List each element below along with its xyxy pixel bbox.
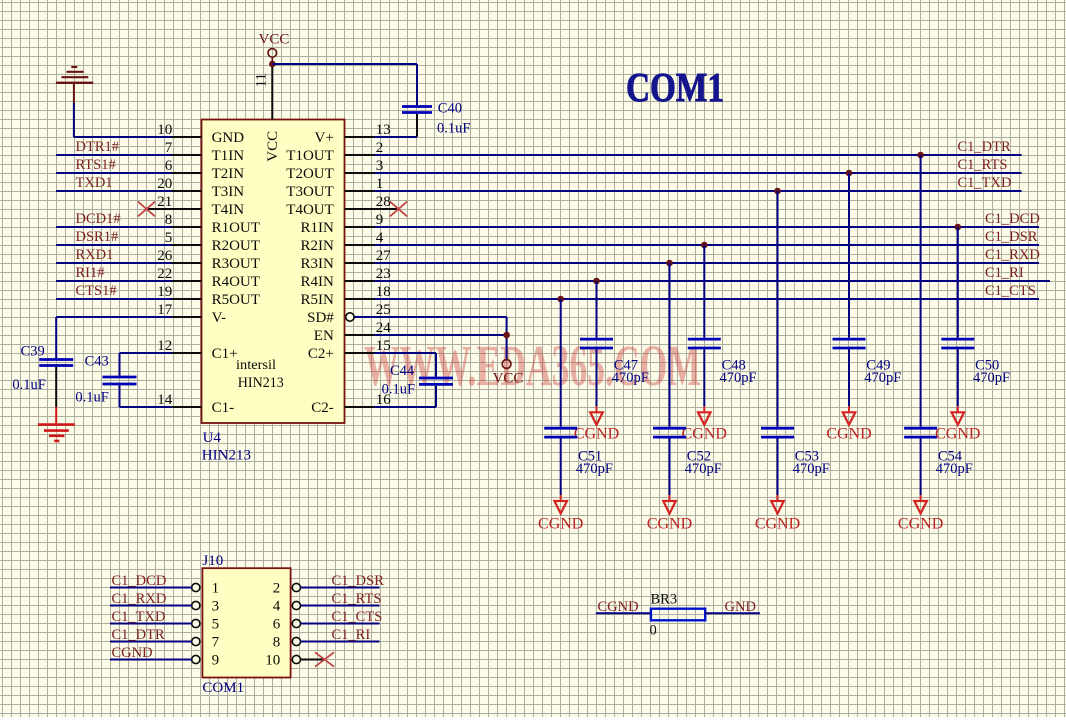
pin 15 U4 right	[345, 338, 391, 354]
svg-text:CGND: CGND	[826, 425, 871, 442]
pin 8 U4 left	[165, 212, 202, 228]
svg-text:DSR1#: DSR1#	[76, 229, 119, 245]
wire C43 to pin14	[119, 385, 121, 407]
svg-text:CGND: CGND	[647, 515, 692, 532]
svg-text:10: 10	[157, 122, 172, 138]
pin 2 J10 right	[273, 580, 301, 596]
power port CGND arrow C49	[843, 406, 856, 425]
svg-text:HIN213: HIN213	[238, 375, 284, 391]
svg-text:2: 2	[273, 580, 281, 596]
svg-text:R2IN: R2IN	[300, 238, 334, 254]
svg-text:C1_DTR: C1_DTR	[958, 139, 1012, 155]
wire pin15 to C44	[375, 352, 437, 354]
svg-text:R1IN: R1IN	[300, 220, 334, 236]
wire net RTS1#	[56, 172, 172, 174]
pin 3 J10 left	[192, 598, 219, 614]
svg-text:7: 7	[212, 634, 220, 650]
svg-text:C1_TXD: C1_TXD	[112, 609, 166, 625]
pin 7 J10 left	[192, 634, 220, 650]
wire net C1_TXD J10	[110, 623, 192, 625]
svg-text:22: 22	[157, 266, 172, 282]
pin 25 U4 right	[346, 302, 391, 321]
svg-text:C1_DCD: C1_DCD	[985, 211, 1040, 227]
junction C48 column	[701, 242, 708, 249]
wire net C1_DSR	[375, 244, 1040, 246]
connector J10 body	[202, 568, 290, 677]
svg-text:1: 1	[212, 580, 220, 596]
svg-text:T4OUT: T4OUT	[286, 202, 334, 218]
pin 6 J10 right	[273, 616, 301, 632]
wire net C1_RTS J10	[301, 605, 380, 607]
capacitor C52	[653, 428, 686, 437]
svg-text:C2-: C2-	[311, 400, 334, 416]
svg-text:C1+: C1+	[212, 346, 238, 362]
power port CGND arrow C47	[590, 406, 603, 425]
svg-text:0.1uF: 0.1uF	[12, 377, 45, 393]
svg-text:0.1uF: 0.1uF	[382, 382, 415, 398]
wire net DCD1#	[56, 226, 172, 228]
svg-text:5: 5	[165, 230, 173, 246]
pin 6 U4 left	[165, 158, 202, 174]
svg-text:470pF: 470pF	[973, 370, 1010, 386]
svg-text:4: 4	[273, 598, 281, 614]
svg-text:R5IN: R5IN	[300, 292, 334, 308]
power port CGND arrow C53	[771, 495, 784, 514]
pin 14 U4 left	[157, 392, 201, 408]
svg-text:8: 8	[273, 634, 281, 650]
wire SD# to VCC	[354, 316, 506, 318]
svg-text:R4OUT: R4OUT	[212, 274, 260, 290]
power port CGND arrow C54	[914, 495, 927, 514]
no-connect X pin10 J10	[315, 652, 334, 666]
pin 5 J10 left	[192, 616, 219, 632]
pin 1 U4 right	[345, 176, 384, 192]
wire C51 column upper	[560, 299, 562, 427]
svg-text:C1_RXD: C1_RXD	[985, 247, 1040, 263]
power port CGND arrow C51	[554, 495, 567, 514]
svg-text:4: 4	[376, 230, 384, 246]
wire net C1_DCD J10	[110, 587, 192, 589]
no-connect X pin21	[138, 202, 155, 217]
svg-text:470pF: 470pF	[685, 461, 722, 477]
svg-text:0: 0	[650, 623, 657, 639]
svg-text:T4IN: T4IN	[212, 202, 245, 218]
svg-text:intersil: intersil	[236, 358, 276, 373]
svg-text:T2IN: T2IN	[212, 166, 245, 182]
wire net C1_RXD	[375, 262, 1040, 264]
svg-text:C1_DCD: C1_DCD	[112, 573, 167, 589]
power port VCC top	[259, 31, 290, 62]
pin 18 U4 right	[345, 284, 391, 300]
pin 22 U4 left	[157, 266, 201, 282]
pin 19 U4 left	[157, 284, 201, 300]
svg-text:C1_CTS: C1_CTS	[332, 609, 383, 625]
junction C52 column	[666, 260, 673, 267]
svg-text:COM1: COM1	[626, 64, 724, 110]
svg-text:14: 14	[157, 392, 173, 408]
wire C50 column upper	[957, 227, 959, 338]
pin 28 U4 right	[345, 194, 399, 210]
wire C52 column lower	[669, 439, 671, 496]
svg-text:20: 20	[157, 176, 172, 192]
wire BR3 to GND	[705, 612, 760, 614]
svg-text:470pF: 470pF	[864, 370, 901, 386]
svg-text:24: 24	[376, 320, 392, 336]
wire net TXD1	[56, 190, 172, 192]
wire net C1_RI	[375, 280, 1051, 282]
pin 17 U4 left	[157, 302, 201, 318]
wire pin10 J10 stub	[301, 659, 324, 661]
wire net RI1#	[56, 280, 172, 282]
pin 1 J10 left	[192, 580, 219, 596]
wire net DSR1#	[56, 244, 172, 246]
wire net C1_DTR J10	[110, 641, 192, 643]
junction C47 column	[593, 278, 600, 285]
svg-text:CGND: CGND	[574, 425, 619, 442]
svg-text:C39: C39	[21, 344, 45, 360]
pin 16 U4 right	[345, 392, 392, 408]
wire VCC to C40	[272, 63, 417, 65]
svg-text:GND: GND	[212, 130, 245, 146]
svg-text:T1OUT: T1OUT	[286, 148, 334, 164]
svg-text:C43: C43	[85, 353, 109, 369]
svg-text:6: 6	[165, 158, 173, 174]
svg-text:12: 12	[157, 338, 172, 354]
wire net C1_TXD	[375, 190, 1022, 192]
pin 27 U4 right	[345, 248, 392, 264]
svg-text:VCC: VCC	[493, 370, 524, 386]
svg-text:C1_DTR: C1_DTR	[112, 627, 166, 643]
svg-text:9: 9	[376, 212, 384, 228]
svg-text:CGND: CGND	[898, 515, 943, 532]
wire C51 column lower	[560, 439, 562, 496]
svg-text:17: 17	[157, 302, 173, 318]
pin 2 U4 right	[345, 140, 384, 156]
pin 4 U4 right	[345, 230, 384, 246]
capacitor C54	[904, 428, 937, 437]
power port CGND arrow C50	[952, 406, 965, 425]
svg-text:7: 7	[165, 140, 173, 156]
wire C47 column upper	[596, 281, 598, 338]
op-amp U4 body (HIN213)	[202, 120, 345, 424]
svg-text:TXD1: TXD1	[76, 175, 113, 191]
svg-text:C1-: C1-	[212, 400, 235, 416]
svg-text:C2+: C2+	[308, 346, 334, 362]
wire net CGND J10	[110, 659, 192, 661]
pin 12 U4 left	[157, 338, 201, 354]
svg-text:CGND: CGND	[598, 599, 639, 615]
earth ground top-left	[56, 67, 93, 103]
wire C52 column upper	[669, 263, 671, 427]
svg-text:C1_RTS: C1_RTS	[958, 157, 1008, 173]
wire C54 column upper	[920, 155, 922, 427]
svg-text:R2OUT: R2OUT	[212, 238, 260, 254]
svg-text:23: 23	[376, 266, 391, 282]
pin 9 J10 left	[192, 652, 219, 668]
wire C48 column upper	[703, 245, 705, 338]
wire net C1_CTS J10	[301, 623, 380, 625]
wire C48 column lower	[703, 349, 705, 406]
svg-text:2: 2	[376, 140, 384, 156]
svg-text:R1OUT: R1OUT	[212, 220, 260, 236]
svg-text:28: 28	[376, 194, 391, 210]
pin 4 J10 right	[273, 598, 301, 614]
power port CGND arrow C48	[698, 406, 711, 425]
svg-text:T2OUT: T2OUT	[286, 166, 334, 182]
wire C44 to pin16	[435, 386, 437, 407]
svg-text:VCC: VCC	[259, 31, 290, 47]
svg-text:C1_DSR: C1_DSR	[332, 573, 385, 589]
pin 8 J10 right	[273, 634, 301, 650]
wire net C1_DCD	[375, 226, 1040, 228]
junction C49 column	[846, 170, 853, 177]
svg-text:26: 26	[157, 248, 173, 264]
svg-text:T3OUT: T3OUT	[286, 184, 334, 200]
wire C39 to power ground	[55, 407, 57, 423]
svg-text:BR3: BR3	[651, 592, 678, 608]
svg-text:CGND: CGND	[682, 425, 727, 442]
svg-text:T3IN: T3IN	[212, 184, 245, 200]
wire C47 column lower	[596, 349, 598, 406]
svg-text:1: 1	[376, 176, 384, 192]
svg-text:COM1: COM1	[202, 680, 244, 696]
capacitor C50	[941, 339, 974, 348]
svg-text:18: 18	[376, 284, 391, 300]
svg-text:15: 15	[376, 338, 391, 354]
svg-text:470pF: 470pF	[936, 461, 973, 477]
wire C53 column lower	[777, 439, 779, 496]
svg-text:C1_RTS: C1_RTS	[332, 591, 382, 607]
svg-text:CTS1#: CTS1#	[76, 283, 117, 299]
svg-text:470pF: 470pF	[612, 370, 649, 386]
power port CGND arrow C52	[663, 495, 676, 514]
pin 24 U4 right	[345, 320, 392, 336]
svg-text:C1_RXD: C1_RXD	[112, 591, 167, 607]
wire CGND to BR3	[596, 612, 651, 614]
svg-text:C1_TXD: C1_TXD	[958, 175, 1012, 191]
svg-text:R3IN: R3IN	[300, 256, 334, 272]
pin 7 U4 left	[165, 140, 202, 156]
svg-text:C44: C44	[390, 363, 415, 379]
pin 20 U4 left	[157, 176, 201, 192]
pin 23 U4 right	[345, 266, 391, 282]
svg-text:CGND: CGND	[112, 645, 153, 661]
pin 21 U4 left	[147, 194, 202, 210]
svg-text:R3OUT: R3OUT	[212, 256, 260, 272]
capacitor C44	[419, 378, 453, 384]
wire net C1_DTR	[375, 154, 1022, 156]
svg-text:19: 19	[157, 284, 172, 300]
capacitor C53	[761, 428, 794, 437]
capacitor C51	[544, 428, 577, 437]
svg-text:HIN213: HIN213	[202, 448, 251, 464]
svg-text:5: 5	[212, 616, 220, 632]
pin 5 U4 left	[165, 230, 202, 246]
junction VCC/pin11	[269, 61, 276, 68]
wire net C1_RI J10	[301, 641, 380, 643]
power port VCC mid	[493, 360, 524, 387]
pin 11 U4 top	[254, 64, 273, 120]
wire C40 to pin13	[375, 136, 418, 138]
svg-text:25: 25	[376, 302, 391, 318]
svg-text:RTS1#: RTS1#	[76, 157, 116, 173]
svg-text:RI1#: RI1#	[76, 265, 105, 281]
capacitor C49	[833, 339, 866, 348]
svg-text:R5OUT: R5OUT	[212, 292, 260, 308]
svg-text:R4IN: R4IN	[300, 274, 334, 290]
wire net CTS1#	[56, 298, 172, 300]
pin 9 U4 right	[345, 212, 384, 228]
wire C54 column lower	[920, 439, 922, 496]
svg-text:11: 11	[254, 73, 270, 87]
capacitor C39	[39, 360, 73, 408]
svg-text:V+: V+	[315, 130, 334, 146]
pin 3 U4 right	[345, 158, 384, 174]
wire pin12 to C43	[120, 352, 172, 354]
junction C51 column	[557, 296, 564, 303]
svg-text:V-: V-	[212, 310, 226, 326]
svg-text:C1_RI: C1_RI	[985, 265, 1024, 281]
svg-text:0.1uF: 0.1uF	[437, 121, 470, 137]
svg-text:U4: U4	[203, 430, 222, 446]
svg-text:SD#: SD#	[307, 310, 334, 326]
capacitor C43	[103, 377, 137, 384]
svg-text:8: 8	[165, 212, 173, 228]
wire net RXD1	[56, 262, 172, 264]
wire C49 column upper	[848, 173, 850, 338]
svg-text:470pF: 470pF	[793, 461, 830, 477]
svg-text:3: 3	[212, 598, 220, 614]
svg-text:CGND: CGND	[755, 515, 800, 532]
no-connect X pin28	[390, 202, 407, 217]
svg-text:C1_DSR: C1_DSR	[985, 229, 1038, 245]
wire net C1_RTS	[375, 172, 1022, 174]
svg-text:DCD1#: DCD1#	[76, 211, 121, 227]
wire V- to C39	[56, 316, 171, 318]
svg-text:470pF: 470pF	[720, 370, 757, 386]
svg-text:3: 3	[376, 158, 384, 174]
svg-text:C40: C40	[438, 101, 462, 117]
capacitor C48	[688, 339, 721, 348]
pin 13 U4 right	[345, 122, 391, 138]
svg-text:DTR1#: DTR1#	[76, 139, 120, 155]
junction C53 column	[774, 188, 781, 195]
wire net C1_RXD J10	[110, 605, 192, 607]
svg-text:GND: GND	[725, 599, 756, 615]
wire ground to pin10	[73, 103, 75, 137]
wire net C1_CTS	[375, 298, 1040, 300]
capacitor C47	[580, 339, 613, 348]
wire EN	[375, 334, 507, 336]
wire net C1_DSR J10	[301, 587, 380, 589]
svg-text:EN: EN	[314, 328, 334, 344]
svg-text:21: 21	[157, 194, 172, 210]
svg-text:C1_CTS: C1_CTS	[985, 283, 1036, 299]
junction EN/VCC	[503, 332, 510, 339]
pin 10 J10 right	[265, 652, 300, 668]
pin 26 U4 left	[157, 248, 201, 264]
junction C54 column	[917, 152, 924, 159]
svg-text:0.1uF: 0.1uF	[75, 390, 108, 406]
wire C50 column lower	[957, 349, 959, 406]
wire C49 column lower	[848, 349, 850, 406]
svg-text:27: 27	[376, 248, 392, 264]
svg-text:13: 13	[376, 122, 391, 138]
wire net DTR1#	[56, 154, 172, 156]
svg-text:CGND: CGND	[935, 425, 980, 442]
capacitor C40	[402, 107, 432, 138]
svg-text:T1IN: T1IN	[212, 148, 245, 164]
power ground CGND red	[38, 425, 75, 441]
wire C53 column upper	[777, 191, 779, 427]
svg-text:6: 6	[273, 616, 281, 632]
junction C50 column	[955, 224, 962, 231]
svg-text:9: 9	[212, 652, 220, 668]
resistor BR3	[651, 609, 705, 621]
svg-text:C1_RI: C1_RI	[332, 627, 371, 643]
svg-text:RXD1: RXD1	[76, 247, 114, 263]
svg-text:J10: J10	[202, 553, 223, 569]
svg-text:VCC: VCC	[265, 131, 281, 162]
pin 10 U4 left	[157, 122, 201, 138]
svg-text:470pF: 470pF	[576, 461, 613, 477]
svg-text:10: 10	[265, 652, 280, 668]
svg-text:CGND: CGND	[538, 515, 583, 532]
